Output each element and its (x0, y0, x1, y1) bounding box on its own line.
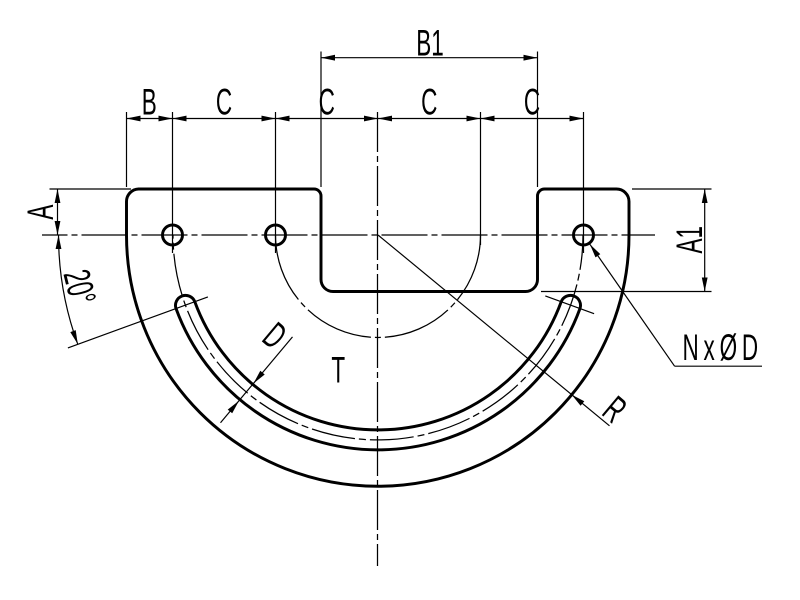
20 deg angular dimension arc (59, 235, 78, 344)
B1 extension lines (320, 52, 322, 188)
extension lines for B/C dimension row (126, 112, 128, 187)
svg-text:R: R (595, 388, 635, 431)
A extension line (top) (50, 188, 132, 190)
hole H2 (266, 225, 286, 245)
A1 extension lines (632, 188, 712, 190)
D slot width dimension (221, 337, 293, 423)
svg-text:A1: A1 (668, 226, 710, 254)
20 deg radial line (left, through slot end) (68, 297, 208, 348)
B1 dimension line (321, 57, 538, 59)
A1 dimension line (704, 189, 706, 292)
svg-text:NxØD: NxØD (682, 326, 762, 368)
centerline: vertical axis (377, 112, 379, 566)
hole H1 (163, 225, 183, 245)
dimension line row B C C C C (127, 118, 584, 120)
svg-text:B1: B1 (416, 22, 444, 64)
part outline: semicircular bracket plate (127, 189, 630, 486)
svg-text:C: C (319, 81, 335, 123)
svg-text:C: C (216, 81, 232, 123)
svg-text:C: C (421, 81, 437, 123)
svg-text:T: T (331, 349, 345, 391)
svg-text:A: A (19, 204, 61, 219)
hole H3 (574, 225, 594, 245)
centerline: inner bolt circle r102.5 (276, 235, 481, 337)
NxOD leader to hole H3 (590, 244, 675, 366)
svg-text:B: B (142, 81, 157, 123)
svg-text:D: D (255, 314, 295, 357)
svg-text:C: C (524, 81, 540, 123)
radial line (right slot end) (545, 296, 594, 314)
curved slot (175, 295, 580, 450)
centerline: bolt circle r204.5 (slot centerline) (173, 235, 583, 440)
A dimension line (57, 189, 59, 235)
R radius dimension line (378, 235, 610, 426)
svg-text:20°: 20° (55, 265, 104, 308)
centerline: horizontal through holes (42, 234, 655, 236)
